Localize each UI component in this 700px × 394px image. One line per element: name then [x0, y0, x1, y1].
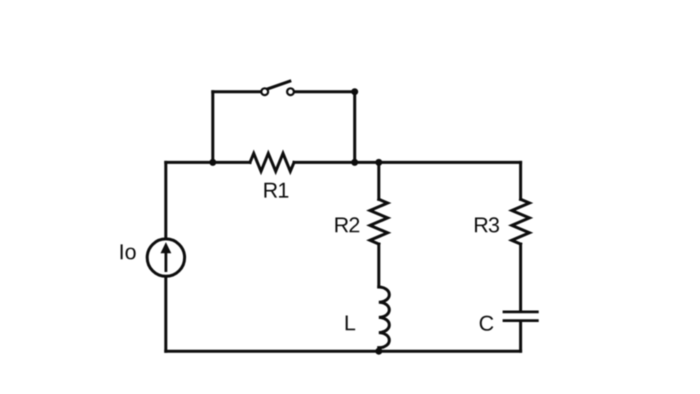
label L — [346, 316, 355, 331]
wire switch loop top-left horizontal — [213, 90, 262, 93]
wire R2 branch top — [377, 162, 380, 199]
switch S1 lever — [268, 81, 290, 89]
label C — [480, 316, 494, 331]
junction dot switch loop top right — [351, 88, 358, 95]
junction dot node D (L bottom) — [375, 348, 382, 355]
label R3 — [475, 217, 499, 232]
junction dot node A (switch/R1 left) — [209, 159, 216, 166]
wire R2 to L — [377, 244, 380, 287]
junction dot node C (R2 branch top) — [375, 159, 382, 166]
current source Io circle — [147, 239, 184, 276]
wire switch loop left vertical — [211, 92, 214, 163]
wire switch loop top-right horizontal — [294, 90, 355, 93]
current source Io arrow shaft — [164, 252, 167, 271]
wire left vertical (top node down to source) — [164, 162, 167, 238]
current source Io arrowhead — [161, 243, 170, 253]
capacitor C — [504, 312, 537, 321]
label R1 — [264, 183, 288, 198]
wire top-left horizontal (source top node to R1 left) — [166, 161, 250, 164]
resistor R3 — [512, 199, 530, 244]
wire node C to R3 branch corner — [379, 161, 521, 164]
wire switch loop right vertical — [353, 92, 356, 163]
label Io — [121, 244, 136, 259]
wire R3 branch top — [519, 162, 522, 199]
switch S1 right contact circle — [287, 88, 294, 95]
resistor R1 — [250, 153, 294, 171]
label R2 — [335, 217, 359, 232]
junction dot node B (switch/R1 right) — [351, 159, 358, 166]
wire left vertical (source down to bottom rail) — [164, 277, 167, 351]
switch S1 left contact circle — [261, 88, 268, 95]
wire R3 to C — [519, 244, 522, 311]
wire R1 right to node B — [294, 161, 355, 164]
wire L bottom stub — [377, 348, 380, 351]
wire bottom rail left (to inductor node) — [166, 350, 379, 353]
inductor L — [379, 287, 390, 348]
wire node B to node C — [355, 161, 379, 164]
wire C bottom — [519, 322, 522, 351]
resistor R2 — [370, 199, 388, 244]
wire bottom rail right (inductor node to capacitor corner) — [379, 350, 521, 353]
